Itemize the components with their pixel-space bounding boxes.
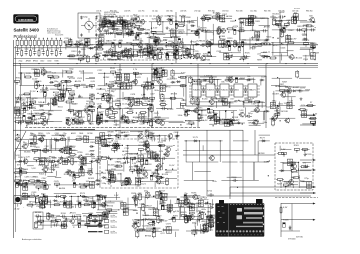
inductor L4 [29,40,32,45]
potentiometer P590 [27,105,32,107]
wire [66,171,75,173]
inductor L829 [206,41,209,47]
transformer Tr770 [34,70,39,76]
wire [116,88,130,90]
svg-text:137p: 137p [255,105,260,107]
wire [273,91,275,106]
wire [43,85,45,98]
svg-text:C875: C875 [154,113,160,115]
node junction [106,113,107,114]
wire [127,79,129,84]
node junction [286,44,287,45]
wire [192,162,194,180]
IC module box [186,76,266,106]
wire [225,111,227,121]
wire [232,123,234,126]
capacitor C891 [114,134,120,137]
svg-text:AF348: AF348 [26,60,31,63]
capacitor C486 [104,144,110,147]
wire [71,43,85,45]
ground [120,117,123,120]
wire output stub [300,114,316,116]
capacitor C504 [45,149,51,152]
svg-text:106k: 106k [139,40,144,42]
svg-text:324k: 324k [286,35,291,37]
svg-text:BC292: BC292 [69,78,76,80]
potentiometer P804 [90,109,95,111]
tuning capacitor box [78,13,100,38]
wire [302,123,316,125]
svg-text:11,5V: 11,5V [146,230,152,232]
wire [109,59,116,61]
node junction [285,63,286,64]
potentiometer P852 [68,109,73,111]
capacitor C587 [128,22,134,25]
node junction [128,99,129,100]
capacitor C529 [154,70,156,75]
inductor L228 [155,40,158,46]
svg-text:C781: C781 [154,155,160,157]
potentiometer P263 [18,121,23,123]
wire [120,173,122,181]
node junction [280,120,281,121]
svg-text:R410: R410 [77,201,83,203]
transistor T485 [137,169,142,174]
capacitor C796 [50,160,56,163]
svg-text:BF444: BF444 [140,29,147,31]
svg-text:BC147: BC147 [231,40,238,42]
wire [157,33,166,35]
resistor R844 [120,51,128,53]
wire [134,73,136,86]
transistor T206 [281,28,286,33]
svg-text:R411: R411 [34,177,40,179]
wire [191,20,197,22]
wire [157,53,159,61]
potentiometer P385 [181,104,186,106]
transistor T287 [39,137,44,142]
wire [86,78,96,80]
svg-text:C742: C742 [124,148,130,150]
wire [114,55,127,57]
svg-text:R535: R535 [114,77,120,79]
svg-text:AF111: AF111 [29,201,36,204]
inductor L320 [117,53,120,59]
capacitor C464 [137,180,143,183]
wire [209,42,211,55]
wire [281,54,283,61]
transformer Tr500 [125,178,130,184]
transistor T302 [221,29,226,34]
capacitor C677 [186,20,192,23]
svg-text:AF305: AF305 [187,202,194,205]
wire [168,135,170,141]
svg-text:11,9V: 11,9V [123,181,129,183]
node junction [99,105,100,106]
svg-text:R897: R897 [257,59,263,61]
transformer Tr665 [139,114,144,120]
svg-text:AF262: AF262 [66,151,73,154]
svg-text:8,3V: 8,3V [163,40,168,42]
potentiometer P564 [280,90,285,92]
transistor T222 [201,16,206,21]
resistor R211 [242,101,250,103]
wire [205,31,207,44]
wire [242,103,244,105]
node junction [18,123,19,124]
transistor T515 [145,147,150,152]
potentiometer P204 [227,56,232,58]
svg-text:11,0V: 11,0V [164,154,170,156]
potentiometer P986 [149,51,154,53]
svg-text:BF339: BF339 [35,212,42,214]
node junction [258,121,259,122]
diode D630 [40,113,45,115]
node junction [21,72,22,73]
svg-text:BF121: BF121 [64,221,71,223]
node junction [129,50,130,51]
diode D583 [123,120,128,122]
svg-text:76p: 76p [184,193,188,195]
inductor L828 [42,69,45,75]
transformer Tr764 [286,36,291,42]
node junction [202,31,203,32]
svg-text:BF174: BF174 [201,115,208,117]
capacitor C311 [107,97,113,100]
wire [146,53,163,55]
wire net [103,55,191,57]
svg-text:R469: R469 [113,29,119,31]
svg-text:BF247: BF247 [86,201,93,203]
ground [60,156,63,159]
wire [122,52,124,58]
svg-text:C690: C690 [32,144,38,146]
diode D924 [18,160,23,162]
svg-text:AF358: AF358 [145,194,152,197]
inductor L611 [150,120,153,126]
svg-text:BC313: BC313 [167,109,174,111]
capacitor C692 [78,43,84,46]
svg-text:BF224: BF224 [107,206,114,208]
potentiometer P186 [34,158,39,160]
wire net [98,85,184,87]
svg-text:BC112: BC112 [296,57,303,59]
wire [279,85,290,87]
resistor R185 [65,44,73,46]
ground [135,36,138,39]
capacitor C705 [234,29,236,34]
potentiometer P988 [31,101,36,103]
wire output stub [300,169,316,171]
wire [300,105,313,107]
inductor L950 [103,21,106,27]
node junction [162,21,163,22]
resistor R702 [224,79,232,81]
transistor T668 [121,51,126,56]
node junction [190,63,191,64]
svg-text:6,9V: 6,9V [41,67,46,69]
svg-text:5,0V: 5,0V [111,181,116,183]
svg-text:C435: C435 [68,41,74,43]
svg-text:R479: R479 [31,69,37,71]
transistor T610 [54,96,59,101]
node junction [140,51,141,52]
wire [64,139,66,150]
wire [23,104,34,106]
transformer Tr735 [222,99,227,105]
transformer Tr515 [62,158,67,164]
svg-text:C252: C252 [278,21,284,23]
svg-text:BC262: BC262 [19,99,26,101]
inductor L8 [46,40,49,45]
wire [257,141,259,162]
wire [229,130,231,199]
svg-text:R991: R991 [256,32,262,34]
inductor L771 [103,19,106,25]
diode D130 [234,43,239,45]
wire [241,22,243,32]
resistor R630 [29,49,31,57]
wire [55,171,57,176]
svg-text:12,4V: 12,4V [57,201,63,203]
svg-text:573p: 573p [25,48,29,50]
wire net [100,32,200,34]
inductor L252 [296,71,299,77]
node junction [171,63,172,64]
node junction [99,44,100,45]
node junction [17,134,18,135]
wire [76,44,78,56]
svg-text:R467: R467 [282,82,288,84]
node junction [247,63,248,64]
wire [234,42,242,44]
wire [140,38,142,51]
resistor R272 [100,157,108,159]
svg-text:BC176: BC176 [242,58,249,60]
capacitor C374 [230,87,233,93]
potentiometer P452 [241,57,246,59]
wire [231,122,246,124]
svg-text:LS 4Ω: LS 4Ω [14,209,20,211]
wire net [274,19,307,21]
wire [115,45,117,56]
node junction [277,77,278,78]
svg-text:Stand 4/78: Stand 4/78 [55,34,63,37]
svg-text:BF310: BF310 [209,223,216,225]
wire [183,154,275,156]
node junction [242,46,243,47]
node junction [172,169,173,170]
node junction [139,50,140,51]
svg-text:R754: R754 [113,143,119,145]
wire net [201,17,270,19]
inductor L178 [98,42,101,48]
svg-text:R329: R329 [230,21,236,23]
svg-text:AF233: AF233 [292,171,299,174]
wire [122,92,124,101]
ground [287,21,290,24]
svg-text:BF307: BF307 [15,162,22,164]
resistor R893 [24,76,32,78]
svg-text:R452: R452 [70,94,76,96]
svg-text:AF303: AF303 [190,41,197,44]
svg-text:C683: C683 [255,21,261,23]
svg-text:C12 49p: C12 49p [250,10,257,12]
capacitor C505 [244,87,247,93]
svg-text:BC395: BC395 [200,27,207,29]
node junction [114,63,115,64]
transistor T435 [170,43,175,48]
capacitor C439 [261,29,267,32]
wire [15,148,22,150]
transformer Tr390 [99,38,104,44]
capacitor C812 [25,50,28,56]
node junction [38,81,39,82]
svg-text:254p: 254p [19,61,23,63]
transistor T773 [156,179,161,184]
IC pins [231,86,246,95]
wire net [18,72,93,74]
transformer Tr165 [89,182,94,188]
wire net [18,138,95,140]
transformer Tr874 [248,19,253,25]
svg-text:R309: R309 [79,138,85,140]
svg-text:10,5V: 10,5V [32,78,38,80]
diode D353 [231,119,236,121]
diode D834 [195,43,200,45]
resistor R946 [75,138,83,140]
wire net [271,42,314,44]
wire net [103,32,122,34]
transformer Tr936 [293,14,298,20]
diode D844 [89,145,94,147]
ground [108,144,111,147]
diode D102 [158,144,163,146]
wire [153,135,155,141]
wire [55,176,61,178]
diode D305 [311,46,316,48]
node junction [133,44,134,45]
wire net [103,22,133,24]
capacitor C177 [44,92,46,97]
capacitor C759 [124,161,130,164]
wire [257,102,259,108]
resistor R629 [93,55,101,57]
inductor L691 [35,83,38,89]
wire [157,111,159,116]
node junction [97,108,98,109]
svg-text:AF178: AF178 [105,23,112,26]
node junction [97,93,98,94]
wire [252,122,265,124]
svg-text:C121: C121 [141,184,147,186]
wire [261,52,267,54]
node output arrow [313,186,315,188]
wire output stub [300,124,316,126]
svg-text:102n: 102n [303,167,308,169]
wire [159,159,161,170]
svg-text:141n: 141n [110,95,115,97]
wire [47,119,49,125]
transistor T342 [138,43,143,48]
wire [230,187,316,193]
svg-text:R179: R179 [151,219,157,221]
transistor T615 [195,31,200,36]
wire [163,37,178,39]
transformer Tr432 [146,83,151,89]
svg-text:BF415: BF415 [124,50,131,52]
inductor L719 [58,84,61,90]
wire [107,88,120,90]
svg-text:C473: C473 [173,31,179,33]
capacitor C750 [44,185,46,190]
capacitor C565 [104,32,110,35]
svg-text:R734: R734 [71,118,77,120]
potentiometer P276 [128,55,133,57]
transistor T727 [74,112,79,117]
wire coil row bus [14,47,100,49]
inductor L621 [145,131,148,137]
wire [125,152,137,154]
svg-text:R374: R374 [159,183,165,185]
svg-text:BC299: BC299 [38,135,45,137]
capacitor C584 [96,57,98,62]
node junction [231,112,232,113]
svg-text:R780: R780 [78,152,84,154]
potentiometer P272 [112,149,117,151]
node junction [37,91,38,92]
svg-text:AF201: AF201 [92,56,99,59]
svg-text:4,6V: 4,6V [150,94,155,96]
capacitor C136 [97,115,99,120]
svg-text:R920: R920 [131,193,137,195]
node junction [263,56,264,57]
svg-text:AF317: AF317 [273,44,280,47]
resistor R224 [55,49,57,57]
svg-text:R282: R282 [288,30,294,32]
potentiometer P218 [109,22,114,24]
resistor R923 [21,49,23,57]
wire [111,83,129,85]
wire [151,49,168,51]
node junction [214,79,215,80]
resistor R443 [211,16,219,18]
inductor L240 [158,53,161,59]
svg-text:C523: C523 [77,78,83,80]
node junction [162,163,163,164]
wire [65,42,67,49]
svg-text:R229: R229 [93,217,99,219]
svg-text:GRUNDIG: GRUNDIG [18,18,34,22]
diode D373 [220,100,225,102]
svg-text:11,1V: 11,1V [82,197,88,199]
wire [89,77,95,79]
svg-text:2,5V: 2,5V [31,91,36,93]
svg-text:BC387: BC387 [273,94,280,96]
svg-text:431p: 431p [204,199,209,201]
wire [192,79,194,85]
svg-text:R318: R318 [287,39,293,41]
capacitor C648 [216,15,222,18]
diode D993 [49,81,54,83]
svg-text:C337: C337 [146,58,152,60]
inductor L523 [107,95,110,101]
transistor T689 [145,143,150,148]
svg-text:C185: C185 [147,226,153,228]
svg-text:R104: R104 [39,173,45,175]
svg-text:AF160: AF160 [122,150,129,153]
svg-text:102p: 102p [143,170,148,172]
